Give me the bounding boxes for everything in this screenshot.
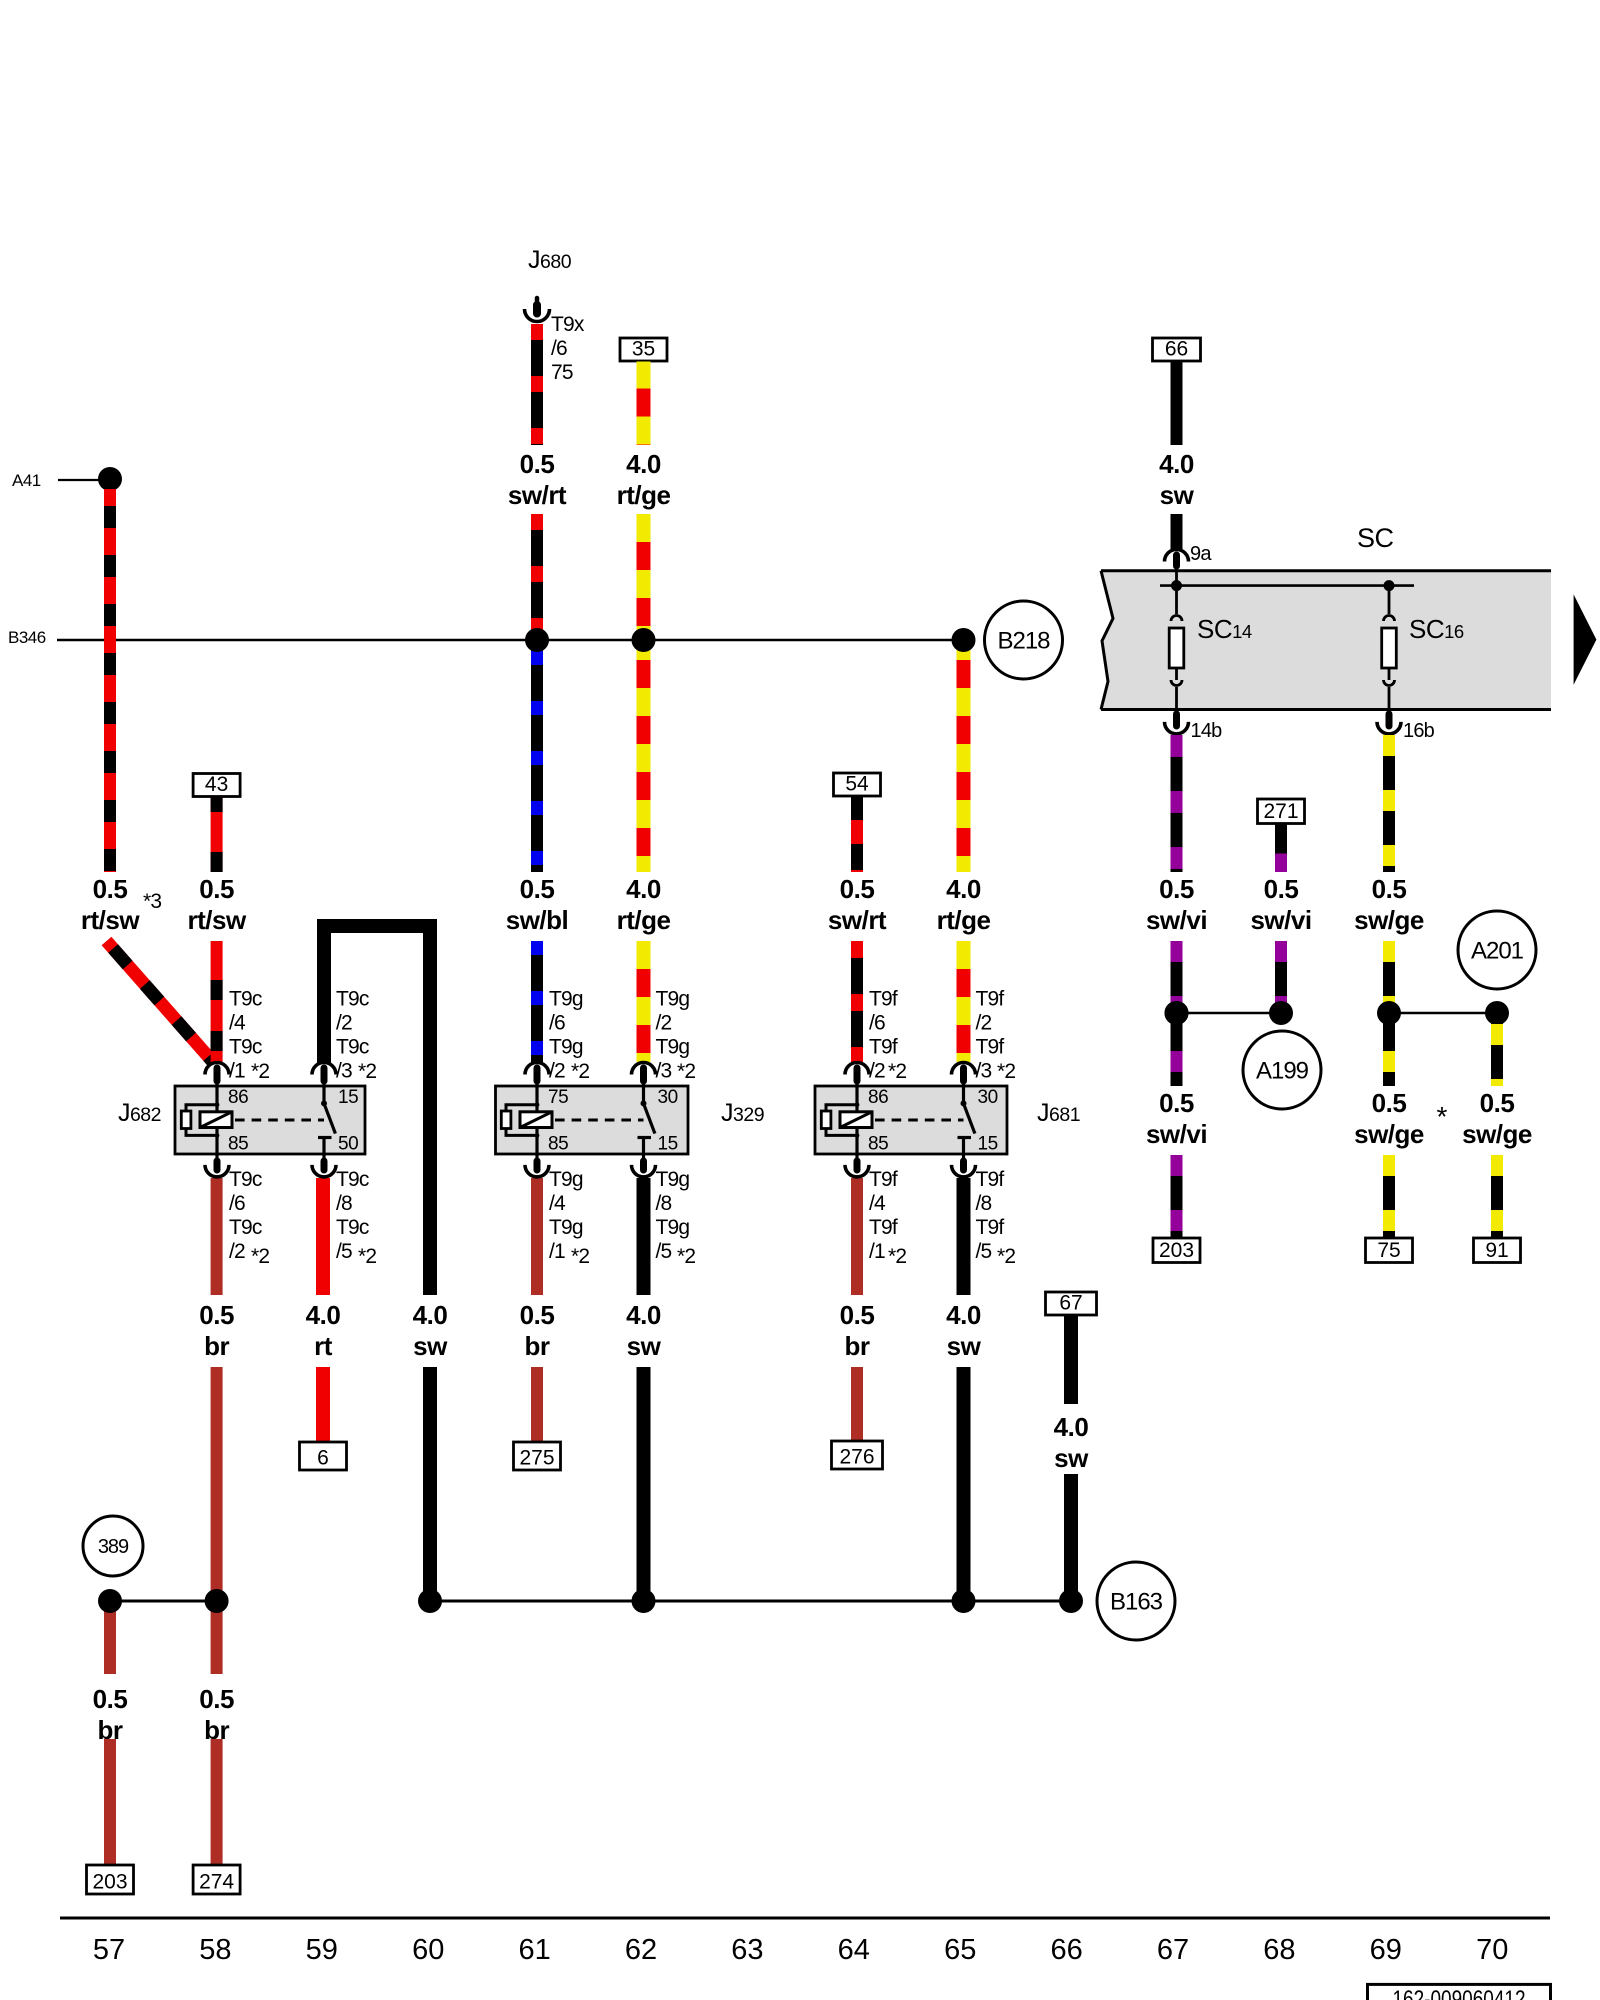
svg-text:69: 69	[1370, 1934, 1402, 1966]
svg-text:/3: /3	[656, 1060, 672, 1083]
svg-text:0.5: 0.5	[199, 1300, 234, 1330]
svg-text:*2: *2	[251, 1060, 269, 1083]
svg-text:T9c: T9c	[229, 1216, 262, 1239]
svg-text:43: 43	[205, 773, 228, 796]
svg-text:4.0: 4.0	[946, 1300, 981, 1330]
svg-text:*2: *2	[888, 1245, 906, 1268]
svg-text:/2: /2	[229, 1240, 245, 1263]
svg-text:/4: /4	[549, 1192, 566, 1215]
svg-text:J682: J682	[118, 1099, 161, 1127]
svg-text:85: 85	[868, 1134, 888, 1155]
svg-text:4.0: 4.0	[946, 874, 981, 904]
svg-text:203: 203	[1159, 1239, 1194, 1262]
svg-text:*2: *2	[997, 1060, 1015, 1083]
svg-text:/8: /8	[656, 1192, 672, 1215]
svg-text:/2: /2	[549, 1060, 565, 1083]
svg-text:T9f: T9f	[869, 1036, 898, 1059]
svg-text:70: 70	[1476, 1934, 1508, 1966]
svg-text:0.5: 0.5	[93, 1684, 128, 1714]
svg-text:T9f: T9f	[976, 1036, 1005, 1059]
svg-text:62: 62	[625, 1934, 657, 1966]
svg-text:0.5: 0.5	[520, 874, 555, 904]
svg-text:A201: A201	[1471, 937, 1524, 964]
svg-text:sw/ge: sw/ge	[1462, 1119, 1532, 1149]
svg-text:4.0: 4.0	[626, 874, 661, 904]
svg-text:67: 67	[1157, 1934, 1189, 1966]
svg-text:A199: A199	[1256, 1057, 1309, 1084]
svg-text:SC: SC	[1357, 523, 1394, 553]
svg-text:75: 75	[1377, 1239, 1400, 1262]
svg-text:50: 50	[338, 1134, 358, 1155]
svg-text:T9c: T9c	[336, 1036, 369, 1059]
svg-text:/1: /1	[549, 1240, 565, 1263]
svg-text:4.0: 4.0	[1054, 1412, 1089, 1442]
svg-text:0.5: 0.5	[840, 1300, 875, 1330]
svg-text:T9g: T9g	[549, 988, 583, 1011]
svg-text:75: 75	[551, 361, 573, 384]
svg-text:T9c: T9c	[229, 1036, 262, 1059]
svg-text:T9f: T9f	[976, 1168, 1005, 1191]
svg-text:30: 30	[658, 1087, 678, 1108]
svg-text:/6: /6	[551, 337, 567, 360]
svg-text:T9g: T9g	[656, 1216, 690, 1239]
svg-text:0.5: 0.5	[93, 874, 128, 904]
svg-text:T9f: T9f	[869, 1216, 898, 1239]
svg-text:61: 61	[518, 1934, 550, 1966]
svg-text:68: 68	[1263, 1934, 1295, 1966]
svg-text:*2: *2	[358, 1245, 376, 1268]
svg-text:rt/ge: rt/ge	[617, 480, 671, 510]
svg-text:rt/ge: rt/ge	[617, 905, 671, 935]
svg-text:0.5: 0.5	[1372, 874, 1407, 904]
svg-text:66: 66	[1165, 338, 1188, 361]
svg-text:15: 15	[338, 1087, 358, 1108]
svg-text:T9c: T9c	[229, 988, 262, 1011]
svg-text:rt/sw: rt/sw	[188, 905, 247, 935]
svg-text:br: br	[845, 1331, 870, 1361]
svg-text:*3: *3	[143, 890, 161, 913]
svg-text:sw/bl: sw/bl	[506, 905, 569, 935]
svg-text:4.0: 4.0	[413, 1300, 448, 1330]
svg-text:T9x: T9x	[551, 313, 585, 336]
svg-text:4.0: 4.0	[626, 449, 661, 479]
svg-text:*2: *2	[677, 1245, 695, 1268]
svg-text:/3: /3	[976, 1060, 992, 1083]
svg-text:63: 63	[731, 1934, 763, 1966]
svg-text:/2: /2	[869, 1060, 885, 1083]
svg-text:T9c: T9c	[229, 1168, 262, 1191]
svg-text:T9g: T9g	[656, 1168, 690, 1191]
svg-text:275: 275	[519, 1447, 554, 1470]
svg-text:66: 66	[1050, 1934, 1082, 1966]
svg-text:T9f: T9f	[869, 988, 898, 1011]
svg-text:0.5: 0.5	[1372, 1088, 1407, 1118]
svg-text:0.5: 0.5	[1264, 874, 1299, 904]
svg-text:sw/ge: sw/ge	[1354, 905, 1424, 935]
svg-text:60: 60	[412, 1934, 444, 1966]
svg-text:0.5: 0.5	[1480, 1088, 1515, 1118]
svg-text:sw: sw	[947, 1331, 982, 1361]
svg-text:64: 64	[838, 1934, 870, 1966]
svg-text:/1: /1	[229, 1060, 245, 1083]
svg-text:276: 276	[839, 1446, 874, 1469]
svg-text:T9g: T9g	[549, 1168, 583, 1191]
svg-text:85: 85	[228, 1134, 248, 1155]
svg-text:59: 59	[306, 1934, 338, 1966]
svg-text:0.5: 0.5	[199, 1684, 234, 1714]
svg-text:15: 15	[978, 1134, 998, 1155]
svg-text:0.5: 0.5	[1159, 1088, 1194, 1118]
svg-text:57: 57	[93, 1934, 125, 1966]
svg-text:A41: A41	[12, 471, 41, 490]
svg-text:0.5: 0.5	[1159, 874, 1194, 904]
svg-text:0.5: 0.5	[520, 1300, 555, 1330]
svg-text:sw/vi: sw/vi	[1250, 905, 1311, 935]
svg-text:0.5: 0.5	[520, 449, 555, 479]
svg-text:14b: 14b	[1191, 720, 1223, 742]
svg-text:T9g: T9g	[549, 1216, 583, 1239]
svg-text:rt/sw: rt/sw	[81, 905, 140, 935]
svg-text:sw: sw	[1054, 1443, 1089, 1473]
svg-text:J681: J681	[1037, 1099, 1080, 1127]
svg-text:rt/ge: rt/ge	[937, 905, 991, 935]
svg-text:T9g: T9g	[656, 988, 690, 1011]
svg-text:sw/ge: sw/ge	[1354, 1119, 1424, 1149]
svg-text:/5: /5	[336, 1240, 352, 1263]
svg-text:*2: *2	[358, 1060, 376, 1083]
svg-text:*2: *2	[251, 1245, 269, 1268]
svg-text:*: *	[1437, 1101, 1448, 1132]
svg-text:67: 67	[1059, 1292, 1082, 1315]
svg-text:*2: *2	[571, 1245, 589, 1268]
svg-text:0.5: 0.5	[840, 874, 875, 904]
svg-text:4.0: 4.0	[1159, 449, 1194, 479]
svg-text:br: br	[525, 1331, 550, 1361]
svg-text:T9c: T9c	[336, 988, 369, 1011]
svg-text:4.0: 4.0	[306, 1300, 341, 1330]
svg-text:T9f: T9f	[976, 988, 1005, 1011]
svg-text:/5: /5	[656, 1240, 672, 1263]
svg-text:/4: /4	[869, 1192, 886, 1215]
svg-text:sw: sw	[627, 1331, 662, 1361]
svg-text:J329: J329	[721, 1099, 764, 1127]
svg-text:4.0: 4.0	[626, 1300, 661, 1330]
svg-text:*2: *2	[997, 1245, 1015, 1268]
svg-text:91: 91	[1485, 1239, 1508, 1262]
svg-text:/8: /8	[336, 1192, 352, 1215]
svg-text:T9f: T9f	[869, 1168, 898, 1191]
svg-text:rt: rt	[314, 1331, 333, 1361]
svg-text:*2: *2	[677, 1060, 695, 1083]
svg-text:T9g: T9g	[549, 1036, 583, 1059]
svg-text:30: 30	[978, 1087, 998, 1108]
svg-text:16b: 16b	[1403, 720, 1435, 742]
svg-text:sw: sw	[1160, 480, 1195, 510]
svg-text:15: 15	[658, 1134, 678, 1155]
svg-text:*2: *2	[571, 1060, 589, 1083]
svg-text:35: 35	[632, 338, 655, 361]
svg-text:/3: /3	[336, 1060, 352, 1083]
svg-text:6: 6	[317, 1447, 329, 1470]
svg-text:271: 271	[1263, 800, 1298, 823]
svg-text:0.5: 0.5	[199, 874, 234, 904]
svg-text:203: 203	[92, 1871, 127, 1894]
svg-text:T9f: T9f	[976, 1216, 1005, 1239]
svg-text:T9c: T9c	[336, 1168, 369, 1191]
svg-text:sw/vi: sw/vi	[1146, 1119, 1207, 1149]
svg-text:B346: B346	[8, 628, 46, 647]
svg-text:/6: /6	[869, 1012, 885, 1035]
svg-text:/6: /6	[549, 1012, 565, 1035]
svg-text:/5: /5	[976, 1240, 992, 1263]
svg-text:/2: /2	[656, 1012, 672, 1035]
svg-text:B163: B163	[1110, 1588, 1163, 1615]
svg-text:75: 75	[548, 1087, 568, 1108]
svg-text:sw/rt: sw/rt	[828, 905, 887, 935]
svg-text:J680: J680	[528, 246, 572, 274]
svg-text:86: 86	[868, 1087, 888, 1108]
svg-text:br: br	[204, 1331, 229, 1361]
svg-text:/6: /6	[229, 1192, 245, 1215]
svg-text:274: 274	[199, 1871, 234, 1894]
svg-text:/2: /2	[336, 1012, 352, 1035]
svg-text:162-009060412: 162-009060412	[1393, 1986, 1526, 2000]
svg-text:58: 58	[199, 1934, 231, 1966]
svg-text:/1: /1	[869, 1240, 885, 1263]
svg-text:T9g: T9g	[656, 1036, 690, 1059]
svg-text:54: 54	[845, 773, 869, 796]
svg-text:sw/rt: sw/rt	[508, 480, 567, 510]
svg-text:389: 389	[98, 1536, 129, 1558]
svg-text:/4: /4	[229, 1012, 246, 1035]
svg-text:/2: /2	[976, 1012, 992, 1035]
svg-text:sw/vi: sw/vi	[1146, 905, 1207, 935]
svg-text:9a: 9a	[1190, 543, 1212, 565]
svg-text:86: 86	[228, 1087, 248, 1108]
svg-text:*2: *2	[888, 1060, 906, 1083]
svg-text:T9c: T9c	[336, 1216, 369, 1239]
svg-text:85: 85	[548, 1134, 568, 1155]
svg-text:/8: /8	[976, 1192, 992, 1215]
svg-text:B218: B218	[997, 627, 1050, 654]
svg-text:65: 65	[944, 1934, 976, 1966]
svg-text:sw: sw	[413, 1331, 448, 1361]
